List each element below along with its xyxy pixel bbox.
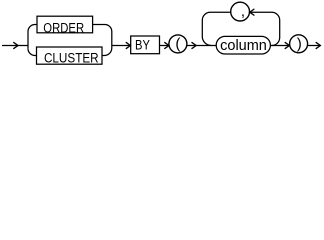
arrowhead entry [13, 42, 18, 49]
svg-text:column: column [220, 38, 267, 54]
oval column [216, 36, 270, 54]
svg-text:,: , [241, 3, 245, 20]
circle open paren [169, 35, 187, 53]
wire loop top right [250, 12, 280, 45]
arrowhead into comma (pointing left) [250, 9, 255, 16]
wire exit [307, 45, 320, 47]
keyword box BY [131, 36, 160, 54]
wire column to close paren [270, 45, 289, 47]
svg-text:CLUSTER: CLUSTER [44, 49, 99, 65]
svg-text:(: ( [175, 35, 180, 52]
wire CLUSTER exit [102, 46, 112, 56]
wire split arc to ORDER [28, 25, 37, 32]
svg-text:ORDER: ORDER [43, 20, 84, 35]
circle comma [231, 2, 250, 21]
wire merge to BY [112, 45, 131, 47]
wire ORDER exit [93, 25, 112, 46]
svg-text:BY: BY [135, 38, 150, 53]
wire entry line [2, 45, 28, 47]
wire paren to column [187, 45, 216, 47]
keyword box CLUSTER [37, 47, 103, 64]
arrowhead exit [316, 42, 321, 49]
arrowhead into close paren [285, 42, 290, 49]
wire loop left side [202, 12, 230, 45]
arrowhead before column [192, 42, 197, 49]
wire split arc to CLUSTER [28, 49, 37, 56]
circle close paren [290, 35, 308, 53]
arrowhead into BY [126, 42, 131, 49]
svg-text:): ) [297, 35, 302, 52]
keyword box ORDER [37, 16, 93, 33]
wire split vertical [27, 32, 29, 49]
wire BY to open paren [160, 45, 170, 47]
arrowhead into open paren [164, 42, 169, 49]
